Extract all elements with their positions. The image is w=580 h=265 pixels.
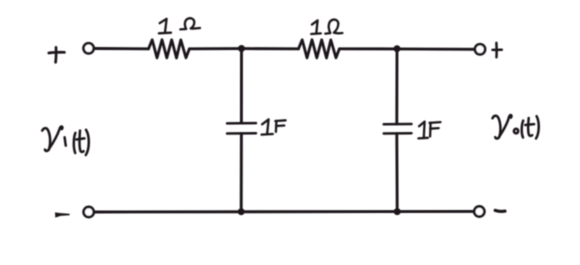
label: 1 Ohm (R2 value): [311, 20, 342, 34]
output bottom terminal circle: [474, 206, 484, 216]
wire: node A down to C1 top plate: [240, 49, 243, 123]
bottom rail wire: [95, 210, 474, 214]
label: vi(t) input voltage: [42, 127, 89, 155]
junction node A (top, under R1 right): [238, 45, 245, 52]
wire: node A to R2: [242, 47, 299, 50]
label: 1F (C1 value): [262, 119, 286, 134]
input - sign (bottom left): [55, 212, 70, 217]
wire: node B to output top terminal: [397, 47, 474, 50]
capacitor C2 plates: [384, 124, 412, 134]
label: 1 Ohm (R1 value): [159, 18, 200, 33]
output + sign (top right): [493, 43, 502, 57]
junction node B (top, under R2 right): [394, 45, 401, 52]
output - sign (bottom right): [495, 209, 505, 213]
output top terminal circle: [475, 44, 485, 54]
wire: R1 to node A: [189, 47, 241, 50]
capacitor C1 plates: [227, 123, 256, 133]
input bottom terminal circle: [84, 207, 94, 217]
label: vo(t) output voltage: [493, 115, 539, 139]
junction node (bottom, under C1): [238, 208, 245, 215]
input top terminal circle: [84, 43, 94, 53]
wire: input top terminal to R1: [95, 47, 149, 50]
wire: C2 bottom plate down to bottom rail: [395, 134, 398, 212]
junction node (bottom, under C2): [394, 208, 401, 215]
resistor R1: [149, 40, 190, 58]
wire: R2 to node B: [339, 47, 397, 50]
resistor R2: [299, 40, 340, 58]
wire: node B down to C2 top plate: [395, 49, 398, 124]
wire: C1 bottom plate down to bottom rail: [240, 134, 243, 212]
label: 1F (C2 value): [418, 122, 440, 139]
input + sign (top left): [49, 47, 65, 62]
